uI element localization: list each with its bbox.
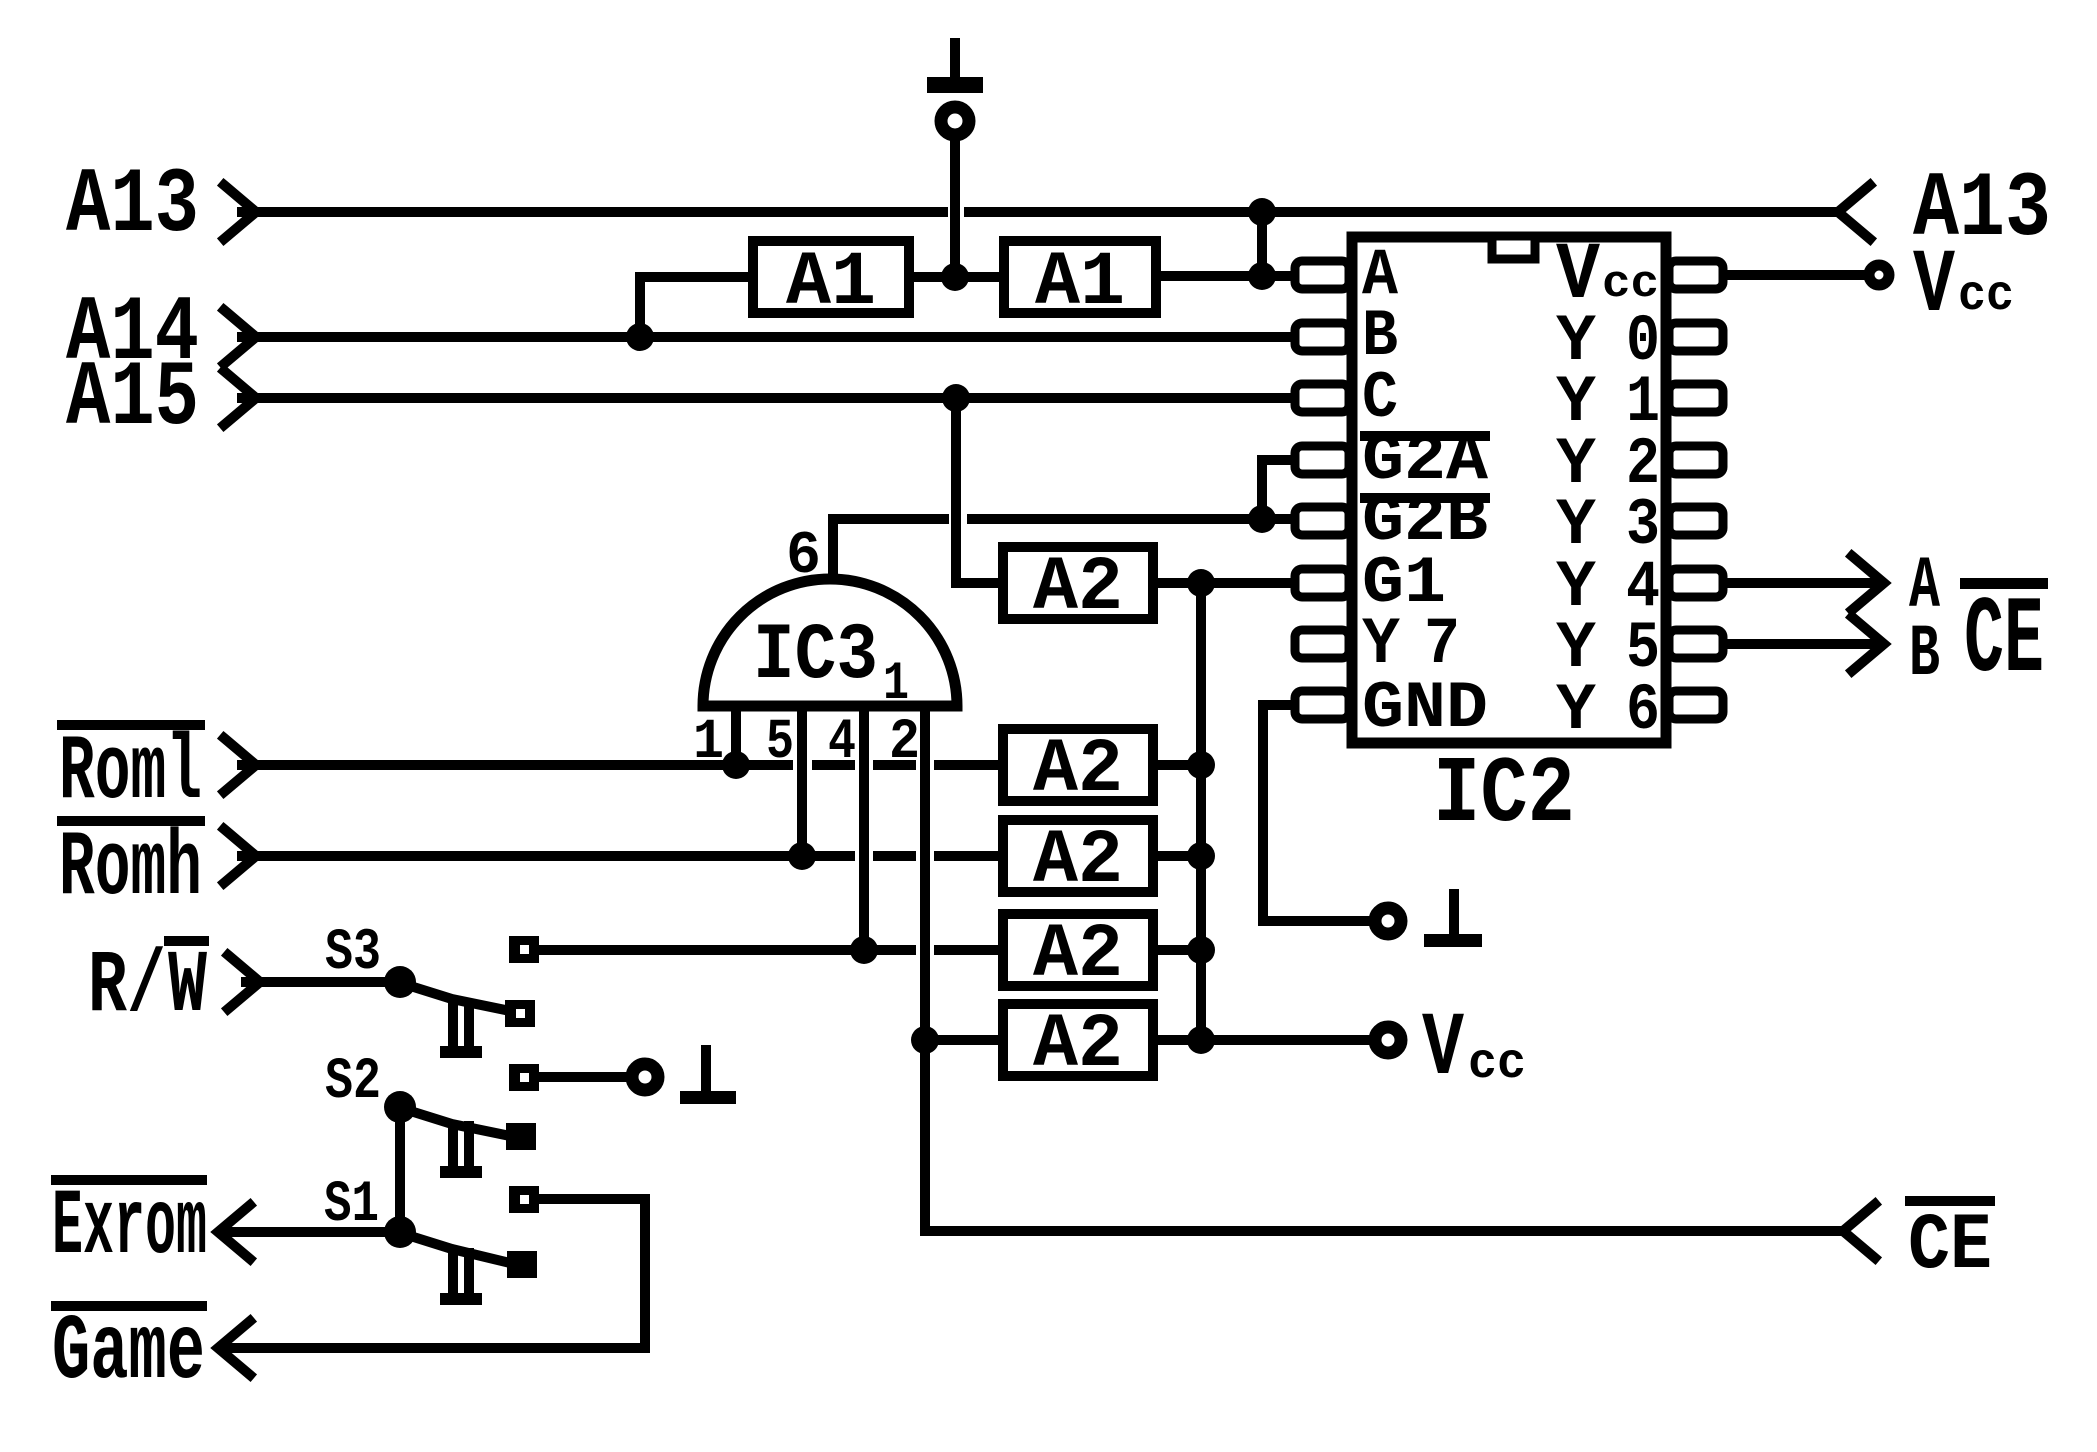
IC2 body (74LS138 decoder) (1352, 237, 1666, 743)
wire Vcc pin to ring (1724, 270, 1861, 280)
wire S1 top contact to Game return (222, 1199, 645, 1348)
svg-text:A15: A15 (66, 346, 199, 451)
junction IC3 pin2 / A2 R5 (911, 1026, 939, 1054)
svg-text:cc: cc (1468, 1036, 1526, 1093)
IC2 pin 3 (C) left (1295, 384, 1349, 412)
node B (Y5 output label) (1909, 613, 1940, 696)
ground symbol (middle, at switch common) (680, 1045, 736, 1104)
junction Roml / IC3 pin1 (722, 751, 750, 779)
node CE (bottom right label, overlined) (1905, 1196, 1995, 1292)
connector ring Vcc (bottom) (1375, 1027, 1401, 1053)
svg-text:W: W (168, 938, 207, 1037)
svg-text:GND: GND (1362, 671, 1488, 746)
connector ring (GND) (1375, 908, 1401, 934)
IC2 notch (1492, 236, 1535, 259)
resistor A2 (R1, at G1) (1003, 545, 1153, 631)
IC2 pin 5 (G2B) left (1295, 507, 1349, 535)
arrow A13 right (pointing left) (1838, 185, 1870, 239)
wire IC3 pin5 stub (797, 708, 807, 856)
connector ring (top) (941, 107, 969, 135)
svg-text:V: V (1422, 999, 1464, 1101)
svg-text:4: 4 (828, 711, 856, 775)
switch S3 pole junction (384, 966, 416, 998)
svg-text:6: 6 (1626, 673, 1660, 748)
wire pin2 to A2 R5 (925, 1035, 1001, 1045)
node Exrom (left output label, overlined) (51, 1175, 207, 1280)
wire top connector drop (950, 135, 960, 277)
switch S3 thrown contact (505, 1000, 535, 1027)
IC2 pin label Y6 (1556, 673, 1660, 748)
wire IC3 pin6 stem (833, 519, 944, 580)
wire Romh segment to IC3 pin5 (242, 851, 850, 861)
IC2 pin label Y0 (1556, 304, 1660, 379)
IC2 pin 9 (Y6) right (1669, 691, 1723, 719)
svg-text:A2: A2 (1033, 727, 1123, 813)
wire A2 bus vertical (1196, 583, 1206, 1040)
svg-text:IC3: IC3 (753, 611, 878, 702)
svg-text:Roml: Roml (59, 720, 202, 825)
ground symbol (near GND pin) (1424, 889, 1482, 947)
IC2 pin 7 (Y7) left (1295, 630, 1349, 658)
switch S1 pole junction (384, 1216, 416, 1248)
svg-text:A2: A2 (1033, 912, 1123, 998)
IC2 pin 14 (Y1) right (1669, 384, 1723, 412)
wire R/W to S3 pole (246, 977, 400, 987)
IC2 pin label Y4 (1556, 550, 1660, 625)
svg-text:A2: A2 (1033, 1002, 1123, 1088)
wire A1 R2 to pin A (1159, 271, 1293, 281)
switch S2 pole junction (384, 1091, 416, 1123)
svg-text:1: 1 (693, 711, 724, 775)
wire Roml hop segment b (878, 760, 911, 770)
svg-text:A2: A2 (1033, 545, 1123, 631)
svg-text:cc: cc (1958, 268, 2014, 325)
arrow Y5 output (1852, 617, 1884, 671)
wire Romh hop segment b (939, 851, 1001, 861)
arrow A13 input (224, 185, 256, 239)
node A (Y4 output label) (1909, 545, 1940, 628)
svg-text:A2: A2 (1033, 818, 1123, 904)
node Roml (left input label, overlined) (57, 720, 205, 825)
svg-text:1: 1 (883, 654, 909, 715)
svg-text:Game: Game (52, 1300, 205, 1405)
resistor A1 (second) (1004, 240, 1156, 326)
junction A14/A1 bracket (626, 323, 654, 351)
wire A13 (left segment, hops over top connector drop) (242, 207, 943, 217)
svg-text:IC2: IC2 (1433, 743, 1575, 849)
op-amp/gate IC3 (NAND section) body (703, 579, 957, 706)
wire A13 (right segment to right edge arrow) (969, 207, 1838, 217)
junction A2 R2 / bus (1187, 751, 1215, 779)
IC2 pin label Y3 (1556, 488, 1660, 563)
junction A2 R3 / bus (1187, 842, 1215, 870)
wire A15 to pin C (242, 393, 1293, 403)
junction A13/pinA drop (1248, 198, 1276, 226)
resistor A2 (R3, Romh) (1003, 818, 1153, 904)
node CE (right output label, overlined) (1960, 578, 2048, 703)
arrow CE bottom (pointing left) (1843, 1204, 1875, 1258)
IC2 pin 13 (Y2) right (1669, 446, 1723, 474)
svg-text:Exrom: Exrom (52, 1175, 207, 1280)
resistor A2 (R2, Roml) (1003, 727, 1153, 813)
svg-text:R/: R/ (88, 938, 166, 1037)
arrow Game output (218, 1321, 250, 1375)
node Vcc (top right label) (1913, 236, 2014, 338)
wire Roml segment to IC3 pin1 (242, 760, 788, 770)
svg-text:S3: S3 (325, 921, 381, 986)
junction Romh / IC3 pin5 (788, 842, 816, 870)
junction top connector / A1-A1 wire (941, 263, 969, 291)
resistor A2 (R4, R/W) (1003, 912, 1153, 998)
IC2 pin label Y1 (1556, 365, 1660, 440)
wire IC3 pin2 stub down to CE line (925, 708, 1838, 1231)
wire GND pin to ground ring (1263, 705, 1370, 921)
svg-text:V: V (1913, 236, 1955, 338)
switch S1 arm (404, 1234, 510, 1263)
node Vcc (bottom label at A2 pack) (1422, 999, 1526, 1101)
svg-text:A1: A1 (1035, 240, 1125, 326)
svg-text:5: 5 (766, 711, 794, 775)
junction pin A / A13 drop (1248, 262, 1276, 290)
switch S2 arm (404, 1109, 510, 1136)
IC2 pin 1 (A) left (1295, 261, 1349, 289)
wire IC3 pin6 to G2B pin (after hop over A15 drop) (972, 514, 1293, 524)
arrow R/W input (228, 955, 260, 1009)
wire S3 hop segment (939, 945, 1001, 955)
IC2 pin label G2B (overlined) (1360, 484, 1490, 559)
arrow Roml input (224, 738, 256, 792)
arrow A14 input (224, 310, 256, 364)
junction A2 R5 / bus (1187, 1026, 1215, 1054)
arrow Romh input (224, 829, 256, 883)
wire A2 R1 to G1 pin (1156, 578, 1293, 588)
junction A2 R4 / bus (1187, 936, 1215, 964)
junction A15/A2 drop (942, 384, 970, 412)
switch S3 contact (to A2 R4 wire) (509, 936, 539, 963)
resistor A1 (first) (753, 240, 909, 326)
wire drop A13 to pin A row (1257, 212, 1267, 276)
wire switch common to ground ring (540, 1072, 627, 1082)
IC2 pin label Y5 (1556, 611, 1660, 686)
svg-text:S2: S2 (325, 1050, 381, 1115)
svg-text:CE: CE (1908, 1201, 1992, 1292)
connector ring Vcc (top right) (1869, 265, 1889, 285)
switch S1 thrown contact (507, 1251, 537, 1278)
svg-text:A13: A13 (66, 153, 199, 258)
switch S3 arm (404, 984, 510, 1011)
IC2 pin 11 (Y4) right (1669, 569, 1723, 597)
wire G2A bracket (1262, 460, 1293, 519)
wire A15 drop to A2 R1 (956, 398, 1001, 583)
wire A2 R3 right (1156, 851, 1201, 861)
svg-text:CE: CE (1964, 579, 2044, 703)
IC2 pin 16 (Vcc) right (1669, 261, 1723, 289)
arrow A15 input (224, 371, 256, 425)
arrow Y4 output (1852, 556, 1884, 610)
wire IC3 pin4 stub (859, 708, 869, 950)
wire Romh hop segment a (878, 851, 911, 861)
svg-text:Romh: Romh (59, 816, 202, 921)
node A15 (left input label) (66, 346, 199, 451)
node R/W (left input label, W overlined) (88, 936, 209, 1037)
wire A2 R5 right to Vcc ring (1156, 1035, 1370, 1045)
switch S1 contact (to Game return) (509, 1186, 539, 1213)
svg-text:2: 2 (889, 711, 920, 775)
wire Y5 output (1724, 639, 1878, 649)
IC2 pin label Y2 (1556, 427, 1660, 502)
svg-text:6: 6 (786, 523, 821, 591)
IC2 pin 12 (Y3) right (1669, 507, 1723, 535)
svg-text:B: B (1909, 613, 1940, 696)
wire Roml hop segment c (939, 760, 1001, 770)
arrow Exrom output (218, 1205, 250, 1259)
node A13 (top right label) (1913, 157, 2051, 262)
resistor A2 (R5, to Vcc) (1003, 1002, 1153, 1088)
switch S3 actuator (440, 1001, 482, 1058)
connector ring (switch common ground) (632, 1064, 658, 1090)
wire S3 contact to IC3 pin4 (540, 945, 911, 955)
IC2 pin label G2A (overlined) (1360, 423, 1490, 498)
IC2 pin 10 (Y5) right (1669, 630, 1723, 658)
svg-text:S1: S1 (324, 1173, 379, 1238)
IC2 pin label Vcc (1556, 231, 1659, 322)
switch common ground contact (509, 1064, 539, 1091)
wire Exrom to S1 pole (222, 1227, 400, 1237)
IC2 pin 8 (GND) left (1295, 691, 1349, 719)
wire Y4 output (1724, 578, 1878, 588)
wire between A1 resistors (912, 272, 1001, 282)
switch S2 actuator (440, 1121, 482, 1178)
ground symbol (top) (927, 38, 983, 93)
wire S2 pole to S1 pole (395, 1107, 405, 1232)
junction G2B / G2A bracket (1248, 505, 1276, 533)
IC2 pin 15 (Y0) right (1669, 323, 1723, 351)
junction S3 wire / IC3 pin4 (850, 936, 878, 964)
wire A14 to pin B (242, 332, 1293, 342)
IC2 pin 4 (G2A) left (1295, 446, 1349, 474)
wire A14 junction up to A1 R1 (640, 277, 750, 337)
junction G1 wire / A2 bus (1187, 569, 1215, 597)
switch S2 thrown contact (506, 1123, 536, 1150)
wire A2 R4 right (1156, 945, 1201, 955)
IC2 pin 6 (G1) left (1295, 569, 1349, 597)
node Romh (left input label, overlined) (57, 816, 205, 921)
node Game (left output label, overlined) (51, 1300, 207, 1405)
wire Roml hop segment a (817, 760, 850, 770)
wire IC3 pin1 stub (731, 708, 741, 765)
IC2 pin label Y7 (1362, 607, 1460, 682)
switch S1 actuator (440, 1248, 482, 1305)
node A13 (left input label) (66, 153, 199, 258)
node A14 (left input label) (66, 281, 199, 386)
svg-text:Y: Y (1556, 673, 1596, 748)
svg-text:A1: A1 (786, 240, 876, 326)
svg-text:cc: cc (1602, 259, 1659, 310)
IC3 reference label with section subscript 1 (753, 611, 909, 715)
IC2 pin 2 (B) left (1295, 323, 1349, 351)
wire A2 R2 right (1156, 760, 1201, 770)
